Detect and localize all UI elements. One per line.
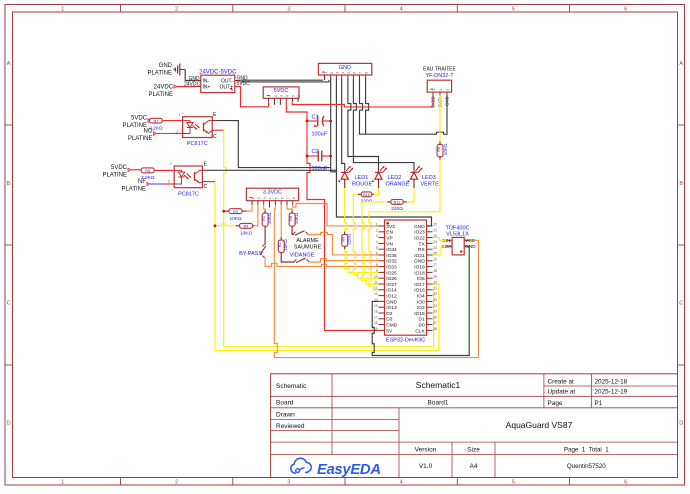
svg-text:13: 13 [374, 292, 378, 296]
svg-text:3: 3 [263, 197, 267, 199]
svg-text:35: 35 [433, 310, 437, 314]
svg-text:BY-PASS: BY-PASS [239, 251, 262, 257]
wire VIDANGE to ESP32 IO32 [309, 259, 379, 262]
header 3.3VDC [246, 188, 298, 205]
wire R7 to opto1 [162, 120, 182, 122]
svg-text:10KΩ: 10KΩ [283, 239, 288, 251]
svg-text:6: 6 [624, 480, 627, 486]
svg-text:VERTE: VERTE [421, 182, 440, 188]
wire NF red segment [163, 183, 174, 185]
svg-text:IO26: IO26 [386, 276, 397, 282]
svg-text:IO25: IO25 [386, 270, 397, 276]
svg-text:5VDC: 5VDC [274, 88, 289, 94]
svg-text:16: 16 [374, 310, 378, 314]
svg-text:SDA: SDA [441, 244, 452, 250]
svg-text:IO18: IO18 [414, 270, 425, 276]
svg-text:D2: D2 [386, 311, 392, 317]
svg-text:5: 5 [376, 246, 378, 250]
capacitor C1 [307, 115, 331, 138]
svg-text:32: 32 [433, 292, 437, 296]
svg-text:Version: Version [415, 446, 437, 453]
wire U1 emitter to gnd rail [212, 120, 218, 122]
wire 3v3 pin5 to TOF VCC [274, 205, 478, 358]
switch BY-PASS [239, 229, 266, 257]
converter U3 24VDC-5VDC [195, 70, 240, 93]
svg-text:2: 2 [175, 7, 178, 13]
svg-text:C: C [213, 134, 217, 140]
svg-text:D0: D0 [419, 323, 425, 329]
svg-text:CLK: CLK [415, 328, 425, 334]
svg-text:7: 7 [286, 197, 290, 199]
svg-text:6: 6 [297, 95, 301, 97]
svg-text:LED3: LED3 [422, 175, 436, 181]
wire gnd v6 to LED3 [353, 79, 414, 171]
svg-text:IO2: IO2 [417, 305, 425, 311]
svg-text:7: 7 [376, 257, 378, 261]
svg-text:2: 2 [439, 89, 443, 91]
resistor R7 [149, 118, 163, 131]
wire ALARME to ESP32 IO35 [308, 233, 379, 255]
svg-text:Board: Board [276, 400, 294, 407]
svg-text:23: 23 [433, 240, 437, 244]
svg-text:10KΩ: 10KΩ [294, 212, 299, 224]
svg-text:R9: R9 [342, 237, 346, 242]
svg-text:IO14: IO14 [386, 288, 397, 294]
svg-text:3: 3 [376, 234, 378, 238]
svg-text:2: 2 [376, 228, 378, 232]
wire 5vdc pin1 drop [268, 102, 270, 107]
svg-text:Drawn: Drawn [276, 411, 295, 418]
svg-text:9: 9 [376, 269, 378, 273]
svg-text:2025-12-19: 2025-12-19 [595, 389, 628, 396]
svg-text:PLATINE: PLATINE [148, 92, 173, 98]
svg-text:30: 30 [433, 281, 437, 285]
svg-text:ORANGE: ORANGE [386, 182, 410, 188]
wire 3v3 pin8 to ESP32 3V3 [293, 204, 379, 226]
svg-text:IO35: IO35 [386, 253, 397, 259]
svg-text:5: 5 [347, 72, 351, 74]
wire OUT+ to 5VDC header pin1 [235, 87, 269, 107]
svg-text:C: C [679, 301, 683, 307]
svg-text:3: 3 [336, 72, 340, 74]
LED1 ROUGE [338, 166, 373, 188]
wire 3v3 pin2 to R4 [255, 205, 258, 226]
resistor R5 [131, 168, 155, 181]
svg-text:TX: TX [419, 241, 426, 247]
svg-text:Update at: Update at [548, 389, 576, 396]
svg-text:15: 15 [374, 304, 378, 308]
svg-text:5: 5 [512, 7, 515, 13]
svg-text:5: 5 [275, 197, 279, 199]
wire DATA to ESP32 IO14 [369, 160, 440, 290]
svg-text:7: 7 [359, 72, 363, 74]
wire 5vdc pin3 stub [279, 102, 281, 105]
svg-text:AquaGuard VS87: AquaGuard VS87 [506, 420, 573, 430]
title block text [276, 378, 628, 470]
svg-text:17: 17 [374, 315, 378, 319]
svg-text:VP: VP [386, 236, 392, 242]
resistor R1 [262, 210, 272, 229]
svg-text:OUT+: OUT+ [220, 85, 234, 91]
svg-text:11: 11 [374, 281, 378, 285]
wire gnd v3 to ESP32 GND20 [336, 79, 431, 227]
svg-text:R7: R7 [153, 119, 158, 123]
svg-text:LED1: LED1 [355, 175, 369, 181]
EasyEDA logo [291, 458, 381, 478]
svg-text:3.3VDC: 3.3VDC [263, 189, 282, 195]
wire gnd platine to IN- [185, 70, 195, 81]
svg-text:1: 1 [61, 480, 64, 486]
svg-text:20: 20 [433, 223, 437, 227]
svg-text:10KΩ: 10KΩ [267, 212, 272, 224]
svg-text:Page 1 Total 1: Page 1 Total 1 [564, 446, 609, 453]
svg-text:3: 3 [446, 89, 450, 91]
wire U2 emitter to gnd rail [202, 169, 208, 171]
wire gnd v5 to LED2 [348, 79, 379, 171]
svg-text:4: 4 [285, 95, 289, 97]
svg-text:PC817C: PC817C [187, 141, 208, 147]
wire gnd v2 (C1 C2 rail) [330, 79, 332, 168]
port 5VDC PLATINE (opto2) [102, 165, 130, 179]
wire 3v3 pin6 to R2 [280, 205, 282, 237]
svg-text:1: 1 [61, 7, 64, 13]
resistor R6 [437, 141, 448, 159]
wire IO21 to SDA [433, 246, 447, 255]
svg-text:10: 10 [374, 275, 378, 279]
svg-text:R5: R5 [145, 169, 150, 173]
svg-text:1: 1 [376, 223, 378, 227]
svg-text:Schematic1: Schematic1 [416, 380, 461, 390]
sensor TOF400C VL53L1X [441, 226, 476, 255]
svg-text:IO23: IO23 [414, 230, 425, 236]
resistor R3 [224, 209, 247, 222]
svg-text:C: C [204, 184, 208, 190]
LED2 ORANGE [372, 166, 410, 188]
svg-text:D: D [679, 421, 683, 427]
svg-text:IO12: IO12 [386, 294, 397, 300]
LED3 VERTE [407, 166, 439, 188]
wire R10 to ESP32 IO26 [353, 194, 378, 278]
svg-text:36: 36 [433, 315, 437, 319]
capacitor C2 [307, 149, 331, 161]
svg-text:C2: C2 [312, 149, 319, 155]
svg-text:E: E [213, 112, 217, 118]
sensor YF-DN32-T EAU TRAITEE [423, 66, 456, 108]
svg-text:GND: GND [414, 224, 425, 230]
wire 5vdc pin2 stub [274, 102, 276, 105]
wire 3v3 pin7 to R8 [287, 205, 292, 210]
wire 3v3 pin1 to R3 [247, 205, 253, 211]
svg-text:R11: R11 [394, 201, 401, 205]
ground GND PLATINE [147, 63, 185, 77]
wire 5vdc pin5 to YF 5VDD [292, 96, 433, 107]
wire BY-PASS to ESP32 IO33 [265, 258, 378, 267]
wire IO22 to SCL [433, 238, 447, 241]
svg-text:33: 33 [433, 298, 437, 302]
svg-text:31: 31 [433, 286, 437, 290]
wire U1 collector yellow to ESP32 IO16 [224, 130, 434, 347]
svg-text:PLATINE: PLATINE [121, 187, 146, 193]
svg-text:38: 38 [433, 327, 437, 331]
wire gnd v7 [360, 79, 366, 135]
port 5VDC PLATINE (opto1) [122, 116, 150, 130]
svg-text:PC817C: PC817C [178, 191, 199, 197]
svg-text:8: 8 [376, 263, 378, 267]
svg-text:2025-12-18: 2025-12-18 [595, 378, 628, 385]
svg-text:NF: NF [138, 179, 146, 185]
svg-text:B: B [7, 181, 11, 187]
svg-text:VN: VN [386, 241, 393, 247]
svg-text:ROUGE: ROUGE [352, 182, 373, 188]
resistor R8 [289, 210, 299, 229]
svg-text:PLATINE: PLATINE [147, 71, 172, 77]
svg-text:24VDC: 24VDC [154, 85, 174, 91]
wire U2 collector yellow to ESP32 IO17 [215, 182, 439, 351]
svg-text:5VDD: 5VDD [430, 97, 435, 108]
svg-text:Board1: Board1 [428, 400, 449, 407]
wire NF blue segment [150, 183, 163, 185]
svg-text:P1: P1 [595, 400, 603, 407]
svg-text:IO33: IO33 [386, 265, 397, 271]
svg-text:4: 4 [400, 7, 403, 13]
svg-text:4: 4 [376, 240, 378, 244]
svg-text:R4: R4 [244, 225, 249, 229]
svg-text:IO4: IO4 [417, 294, 425, 300]
svg-text:B: B [679, 181, 683, 187]
wire 24VDC platine to IN+ [177, 86, 195, 88]
svg-text:2: 2 [175, 480, 178, 486]
svg-text:R6: R6 [437, 147, 441, 152]
switch VIDANGE [281, 252, 315, 262]
header GND [318, 63, 371, 78]
svg-text:IO16: IO16 [414, 288, 425, 294]
header 5VDC [263, 87, 301, 102]
svg-text:6: 6 [280, 197, 284, 199]
wire R11 to ESP32 IO27 [362, 202, 387, 284]
svg-text:29: 29 [433, 275, 437, 279]
svg-text:8: 8 [365, 72, 369, 74]
svg-text:A: A [679, 61, 683, 67]
wire gnd v4 to LED1 [342, 79, 345, 171]
svg-text:ESP32-DevKitC: ESP32-DevKitC [386, 338, 425, 344]
svg-text:IO19: IO19 [414, 265, 425, 271]
svg-text:TOF400C: TOF400C [445, 226, 469, 232]
svg-text:10KΩ: 10KΩ [443, 143, 448, 155]
resistor R9 [342, 232, 352, 250]
svg-text:6: 6 [376, 252, 378, 256]
svg-text:6: 6 [353, 72, 357, 74]
optocoupler U1 PC817C [176, 111, 212, 148]
svg-text:LED2: LED2 [388, 175, 402, 181]
svg-text:Page: Page [548, 400, 563, 407]
svg-text:IO21: IO21 [414, 253, 425, 259]
svg-text:IN+: IN+ [203, 85, 211, 91]
svg-text:24: 24 [433, 246, 437, 250]
svg-text:34: 34 [433, 304, 437, 308]
svg-text:PLATINE: PLATINE [128, 136, 153, 142]
port 24VDC PLATINE [148, 85, 176, 99]
wire R9 to ESP32 IO25 [345, 249, 379, 272]
wire U1 collector [212, 129, 224, 131]
svg-text:4: 4 [400, 480, 403, 486]
svg-text:IO5: IO5 [417, 276, 425, 282]
no-connect pin4 [269, 205, 271, 208]
MCU ESP32-DevKitC [374, 220, 437, 344]
wire DATA to R6 [439, 96, 441, 142]
svg-text:GND: GND [465, 244, 476, 250]
svg-text:5VDC: 5VDC [111, 165, 128, 171]
svg-text:D1: D1 [419, 317, 425, 323]
svg-text:NO: NO [144, 129, 153, 135]
svg-text:10KΩ: 10KΩ [229, 216, 242, 222]
svg-text:IO22: IO22 [414, 236, 425, 242]
svg-text:D: D [7, 421, 11, 427]
wire 3v3 pin3 to R1 [264, 205, 265, 210]
svg-text:2: 2 [176, 130, 178, 134]
svg-text:RX: RX [418, 247, 425, 253]
resistor R11 [387, 200, 406, 212]
svg-text:Schematic: Schematic [276, 383, 307, 390]
resistor R4 [215, 223, 255, 236]
svg-text:6: 6 [624, 7, 627, 13]
svg-text:A4: A4 [470, 463, 478, 470]
svg-text:5VDC: 5VDC [131, 116, 148, 122]
svg-text:220Ω: 220Ω [361, 198, 373, 204]
svg-text:10KΩ: 10KΩ [240, 231, 253, 237]
wire LED1 to R9 [345, 188, 347, 232]
svg-text:EasyEDA: EasyEDA [317, 462, 381, 478]
svg-text:3: 3 [287, 7, 290, 13]
svg-text:IO27: IO27 [386, 282, 397, 288]
svg-text:27: 27 [433, 263, 437, 267]
wire R5 to opto2 [154, 169, 174, 171]
svg-text:GND: GND [386, 299, 397, 305]
svg-text:R3: R3 [233, 210, 238, 214]
svg-text:Create at: Create at [548, 378, 575, 385]
svg-text:28: 28 [433, 269, 437, 273]
svg-text:21: 21 [433, 228, 437, 232]
svg-text:GND: GND [159, 63, 173, 69]
svg-text:GND: GND [444, 97, 449, 106]
wire gnd v8 to YF-DN32-T GND [366, 79, 447, 135]
svg-text:R10: R10 [363, 193, 370, 197]
svg-text:EAU TRAITÉE: EAU TRAITÉE [423, 66, 456, 73]
svg-text:E: E [204, 162, 208, 168]
port NF PLATINE [121, 179, 149, 193]
svg-text:IO13: IO13 [386, 305, 397, 311]
svg-text:IO15: IO15 [414, 311, 425, 317]
svg-text:220Ω: 220Ω [391, 206, 403, 212]
wire U2 collector [202, 181, 215, 183]
svg-text:12: 12 [374, 286, 378, 290]
svg-text:VCC: VCC [465, 238, 476, 244]
svg-text:3: 3 [280, 95, 284, 97]
svg-text:2: 2 [274, 95, 278, 97]
svg-text:ALARME: ALARME [296, 238, 319, 244]
optocoupler U2 PC817C [168, 161, 203, 197]
wire NO red segment [172, 133, 183, 135]
wire 5V rail down to ESP32 5V [286, 102, 378, 331]
svg-text:3V3: 3V3 [386, 224, 395, 230]
svg-text:R8: R8 [289, 216, 293, 221]
svg-text:37: 37 [433, 321, 437, 325]
svg-text:YF-DN32-T: YF-DN32-T [425, 73, 454, 79]
svg-text:5: 5 [512, 480, 515, 486]
svg-text:V1.0: V1.0 [419, 463, 433, 470]
wire OUT- to GND header pin1 [240, 79, 323, 81]
svg-text:IO34: IO34 [386, 247, 397, 253]
resistor R10 [358, 192, 374, 204]
svg-text:IO0: IO0 [417, 299, 425, 305]
port NO PLATINE [128, 129, 156, 143]
wire OUT- second gnd run [240, 80, 329, 82]
svg-text:C: C [7, 301, 11, 307]
switch ALARME SAUMURE [292, 229, 321, 250]
svg-text:SCL: SCL [442, 238, 452, 244]
svg-text:1: 1 [179, 113, 181, 117]
svg-text:2: 2 [168, 180, 170, 184]
svg-text:220Ω: 220Ω [347, 233, 352, 245]
svg-text:EN: EN [386, 230, 393, 236]
svg-text:GND: GND [414, 259, 425, 265]
svg-text:Quentin57520: Quentin57520 [567, 463, 606, 470]
svg-text:PLATINE: PLATINE [102, 173, 127, 179]
svg-text:5: 5 [292, 95, 296, 97]
svg-text:100nF: 100nF [312, 166, 328, 172]
title block [271, 374, 678, 478]
svg-text:R1: R1 [262, 216, 266, 221]
svg-text:Reviewed: Reviewed [276, 423, 305, 430]
wire NO green segment [157, 133, 173, 135]
svg-text:26: 26 [433, 257, 437, 261]
svg-text:2: 2 [257, 197, 261, 199]
svg-text:4: 4 [341, 72, 345, 74]
svg-text:CMD: CMD [386, 323, 397, 329]
svg-text:Size: Size [467, 446, 480, 453]
svg-text:GND: GND [339, 65, 351, 71]
svg-text:R2: R2 [278, 242, 282, 247]
svg-text:18: 18 [374, 321, 378, 325]
svg-text:A: A [7, 61, 11, 67]
wire pin1 stub [324, 75, 326, 80]
svg-text:IO17: IO17 [414, 282, 425, 288]
wire TOF GND to ESP32 GND14 [372, 246, 470, 355]
svg-text:5V: 5V [386, 328, 393, 334]
svg-text:VIDANGE: VIDANGE [290, 252, 315, 258]
resistor R2 [278, 237, 288, 255]
svg-text:4: 4 [269, 197, 273, 199]
svg-text:D3: D3 [386, 317, 392, 323]
wire LED2 to R10 [374, 188, 379, 194]
wire LED3 to R11 [407, 188, 414, 202]
svg-text:IO32: IO32 [386, 259, 397, 265]
svg-text:3: 3 [287, 480, 290, 486]
svg-text:SAUMURE: SAUMURE [294, 244, 322, 250]
svg-text:8: 8 [292, 197, 296, 199]
svg-text:2: 2 [330, 72, 334, 74]
svg-text:100uF: 100uF [312, 132, 328, 138]
